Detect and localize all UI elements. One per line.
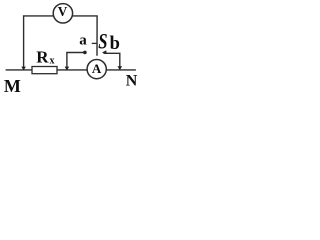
svg-text:N: N xyxy=(126,73,138,90)
svg-text:A: A xyxy=(92,61,102,76)
wire top-left: left vertical riser and top horizontal to voltmeter xyxy=(24,16,54,69)
svg-text:R: R xyxy=(36,47,49,66)
junction arrow at left riser on bottom wire xyxy=(21,67,26,71)
svg-text:b: b xyxy=(110,34,120,54)
wire contact-a branch: dot to corner, down to bottom wire xyxy=(67,53,85,70)
node b contact hook xyxy=(102,50,107,54)
junction arrow at contact-b branch on bottom wire xyxy=(118,66,123,70)
svg-text:V: V xyxy=(58,4,68,19)
svg-text:x: x xyxy=(50,55,55,66)
wire bottom main: M terminal to ammeter left xyxy=(6,69,87,71)
wire contact-b branch: hook to corner, down to bottom wire xyxy=(104,53,120,68)
wire top-right: voltmeter to top-right corner, down to switch blade xyxy=(73,16,98,55)
svg-text:S: S xyxy=(98,29,107,54)
junction arrow at contact-a branch on bottom wire xyxy=(65,67,70,71)
wire bottom main: ammeter right to N terminal xyxy=(106,69,135,71)
ammeter A1 circle xyxy=(87,60,106,79)
svg-text:a: a xyxy=(79,32,87,48)
svg-text:M: M xyxy=(4,76,21,96)
wire switch blade pivot tick xyxy=(92,42,97,44)
node a contact dot xyxy=(83,51,87,55)
resistor Rx box xyxy=(32,67,57,74)
voltmeter V1 circle xyxy=(53,4,72,23)
